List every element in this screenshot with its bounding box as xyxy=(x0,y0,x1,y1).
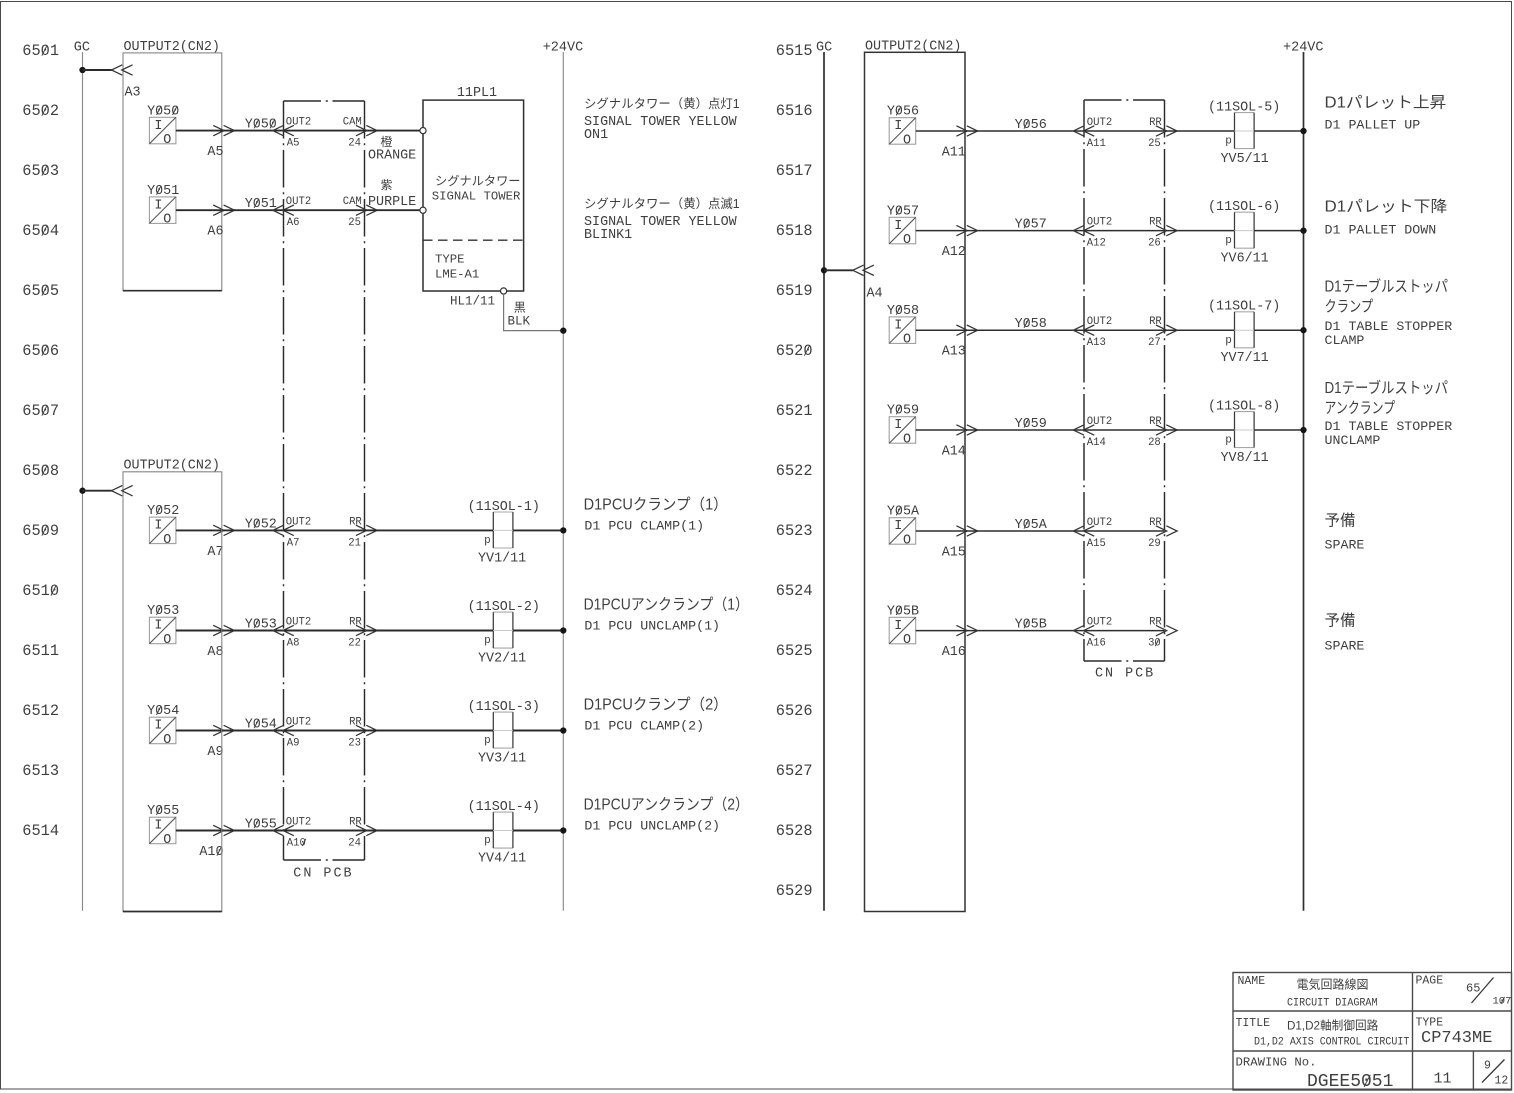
svg-text:A15: A15 xyxy=(1087,538,1106,550)
output module Y052 xyxy=(147,504,179,548)
wire Y055 to connector pin A10 xyxy=(176,825,235,860)
svg-text:CIRCUIT DIAGRAM: CIRCUIT DIAGRAM xyxy=(1287,998,1378,1010)
svg-text:6507: 6507 xyxy=(22,402,59,420)
svg-text:D1テーブルストッパ: D1テーブルストッパ xyxy=(1325,277,1449,296)
svg-text:YV8/11: YV8/11 xyxy=(1221,451,1269,466)
svg-text:O: O xyxy=(163,533,171,548)
svg-text:CN PCB: CN PCB xyxy=(293,867,353,882)
svg-text:I: I xyxy=(154,198,162,213)
svg-text:Y05A: Y05A xyxy=(887,505,920,520)
svg-text:A11: A11 xyxy=(1087,138,1106,150)
svg-text:6521: 6521 xyxy=(776,402,813,420)
connector pins OUT2 A15 / RR 29 xyxy=(1073,517,1177,550)
output module Y05B xyxy=(887,604,919,648)
svg-text:YV1/11: YV1/11 xyxy=(478,551,526,566)
wire Y052 to connector pin A7 xyxy=(176,525,235,560)
wire 24 to signal tower xyxy=(365,130,421,132)
svg-text:D1 TABLE STOPPER: D1 TABLE STOPPER xyxy=(1325,319,1453,334)
svg-text:6504: 6504 xyxy=(22,222,59,240)
label SPARE 1 xyxy=(1325,511,1365,552)
title block PAGE cell 65/107 xyxy=(1416,975,1512,1008)
output module Y05A xyxy=(887,505,920,549)
title block TITLE cell xyxy=(1236,1017,1410,1049)
solenoid valve YV4/11 (11SOL-4) xyxy=(468,800,540,867)
svg-text:6512: 6512 xyxy=(22,702,59,720)
wire Y053 to connector pin A8 xyxy=(176,625,235,660)
svg-text:ON1: ON1 xyxy=(584,128,608,143)
output module Y053 xyxy=(147,604,179,648)
wire Y051 to connector pin A6 xyxy=(176,205,235,240)
svg-text:A11: A11 xyxy=(942,146,966,161)
svg-text:RR: RR xyxy=(1149,617,1162,629)
svg-text:A9: A9 xyxy=(287,738,300,750)
svg-text:6516: 6516 xyxy=(776,102,813,120)
net label Y057 xyxy=(965,218,1084,233)
connector pins OUT2 A10 / RR 24 xyxy=(273,817,377,850)
net +24VC right rail xyxy=(1283,41,1324,911)
connector pins OUT2 A5 / CAM 24 xyxy=(273,117,377,150)
svg-text:O: O xyxy=(903,633,911,648)
wire Y05B to connector pin A16 xyxy=(916,625,978,660)
wire GC to OUTPUT2 A4 with junction xyxy=(821,265,874,275)
svg-text:p: p xyxy=(1225,435,1232,447)
svg-text:6528: 6528 xyxy=(776,822,813,840)
output module Y050 xyxy=(147,104,179,148)
net label Y058 xyxy=(965,317,1084,332)
svg-text:BLINK1: BLINK1 xyxy=(584,228,632,243)
svg-text:6519: 6519 xyxy=(776,282,813,300)
svg-text:紫: 紫 xyxy=(381,178,393,192)
svg-text:6505: 6505 xyxy=(22,282,59,300)
net label Y054 xyxy=(222,718,284,733)
wire Y054 to connector pin A9 xyxy=(176,725,235,760)
svg-text:6513: 6513 xyxy=(22,762,59,780)
connector pins OUT2 A12 / RR 26 xyxy=(1073,217,1177,250)
svg-text:RR: RR xyxy=(1149,316,1162,328)
connector pins OUT2 A7 / RR 21 xyxy=(273,516,377,549)
svg-text:(11SOL-2): (11SOL-2) xyxy=(468,600,540,615)
svg-text:RR: RR xyxy=(349,817,362,829)
signal tower 11PL1 xyxy=(420,86,524,294)
output module Y059 xyxy=(887,404,919,448)
label D1 PALLET DOWN xyxy=(1325,198,1448,238)
svg-text:OUT2: OUT2 xyxy=(1087,217,1112,229)
svg-text:12: 12 xyxy=(1495,1074,1509,1087)
wire Y05A to connector pin A15 xyxy=(916,526,978,561)
wire solenoid YV6/11 to +24VC junction xyxy=(1254,227,1307,233)
net label Y052 xyxy=(222,517,284,532)
svg-text:24: 24 xyxy=(348,138,361,150)
wire 25 to signal tower xyxy=(365,209,421,211)
svg-text:I: I xyxy=(154,519,162,534)
svg-text:A4: A4 xyxy=(867,287,883,302)
solenoid valve YV1/11 (11SOL-1) xyxy=(468,500,540,567)
svg-text:p: p xyxy=(1225,136,1232,148)
svg-text:(11SOL-5): (11SOL-5) xyxy=(1208,100,1280,115)
svg-text:Y05B: Y05B xyxy=(887,604,919,619)
svg-text:Y05B: Y05B xyxy=(1015,618,1047,633)
svg-text:6509: 6509 xyxy=(22,522,59,540)
net label Y050 xyxy=(222,118,284,133)
wire Y057 to connector pin A12 xyxy=(916,225,978,260)
svg-text:(11SOL-6): (11SOL-6) xyxy=(1208,200,1280,215)
svg-text:Y052: Y052 xyxy=(147,504,179,519)
solenoid valve YV5/11 (11SOL-5) xyxy=(1208,100,1280,167)
net +24VC left rail xyxy=(543,41,584,911)
output module Y057 xyxy=(887,204,919,248)
svg-text:6514: 6514 xyxy=(22,822,59,840)
svg-text:6503: 6503 xyxy=(22,162,59,180)
svg-text:23: 23 xyxy=(348,738,361,750)
svg-text:SPARE: SPARE xyxy=(1325,639,1365,654)
svg-text:D1パレット下降: D1パレット下降 xyxy=(1325,198,1448,216)
svg-text:22: 22 xyxy=(348,638,361,650)
svg-text:6522: 6522 xyxy=(776,462,813,480)
svg-text:RR: RR xyxy=(349,717,362,729)
svg-text:9: 9 xyxy=(1484,1059,1491,1072)
wire solenoid YV3/11 to +24VC junction xyxy=(513,727,567,733)
svg-text:RR: RR xyxy=(1149,117,1162,129)
svg-text:DGEE5051: DGEE5051 xyxy=(1307,1072,1393,1092)
svg-text:27: 27 xyxy=(1148,337,1161,349)
connector CN PCB left dash-dot box xyxy=(284,101,365,882)
svg-text:6501: 6501 xyxy=(22,42,59,60)
svg-text:A16: A16 xyxy=(942,645,966,660)
connector pins OUT2 A14 / RR 28 xyxy=(1073,416,1177,449)
svg-text:(11SOL-1): (11SOL-1) xyxy=(468,500,540,515)
svg-text:UNCLAMP: UNCLAMP xyxy=(1325,433,1381,448)
svg-text:RR: RR xyxy=(349,617,362,629)
wire solenoid YV7/11 to +24VC junction xyxy=(1254,327,1307,333)
svg-text:OUT2: OUT2 xyxy=(286,717,311,729)
wire solenoid YV4/11 to +24VC junction xyxy=(513,827,567,833)
connector OUTPUT2(CN2) A4 right box xyxy=(865,40,966,912)
wire solenoid YV1/11 to +24VC junction xyxy=(513,527,567,533)
wire 25 to solenoid xyxy=(1165,130,1235,132)
net GC right rail xyxy=(816,41,832,911)
svg-text:A12: A12 xyxy=(942,245,966,260)
connector pins OUT2 A16 / RR 30 xyxy=(1073,617,1177,650)
output module Y051 xyxy=(147,184,179,228)
svg-text:(11SOL-4): (11SOL-4) xyxy=(468,800,540,815)
svg-text:D1 PCU CLAMP(2): D1 PCU CLAMP(2) xyxy=(584,719,704,734)
svg-text:OUT2: OUT2 xyxy=(1087,117,1112,129)
svg-text:p: p xyxy=(484,635,491,647)
svg-text:OUT2: OUT2 xyxy=(1087,517,1112,529)
wire 22 to solenoid xyxy=(365,630,494,632)
svg-text:A8: A8 xyxy=(207,645,223,660)
svg-text:RR: RR xyxy=(1149,517,1162,529)
svg-text:6529: 6529 xyxy=(776,882,813,900)
output module Y054 xyxy=(147,704,179,748)
svg-text:YV6/11: YV6/11 xyxy=(1221,252,1269,267)
svg-text:I: I xyxy=(894,119,902,134)
svg-text:Y058: Y058 xyxy=(887,304,919,319)
svg-text:D1PCUアンクランプ（1）: D1PCUアンクランプ（1） xyxy=(584,596,749,614)
svg-text:I: I xyxy=(154,819,162,834)
svg-text:予備: 予備 xyxy=(1325,511,1356,529)
output module Y056 xyxy=(887,105,919,149)
svg-text:D1 PALLET DOWN: D1 PALLET DOWN xyxy=(1325,223,1437,238)
wire Y058 to connector pin A13 xyxy=(916,325,978,360)
svg-text:シグナルタワー（黄）点灯1: シグナルタワー（黄）点灯1 xyxy=(584,97,740,111)
title block sheet number 11 xyxy=(1434,1070,1452,1087)
svg-text:25: 25 xyxy=(1148,138,1161,150)
wire Y050 to connector pin A5 xyxy=(176,125,235,160)
svg-text:D1PCUクランプ（1）: D1PCUクランプ（1） xyxy=(584,495,728,513)
rung numbers 6501-6514 left column xyxy=(22,42,59,840)
svg-text:6517: 6517 xyxy=(776,162,813,180)
output module Y058 xyxy=(887,304,919,348)
title block revision 9/12 xyxy=(1482,1059,1508,1087)
solenoid valve YV2/11 (11SOL-2) xyxy=(468,600,540,667)
svg-text:OUT2: OUT2 xyxy=(286,817,311,829)
svg-text:A16: A16 xyxy=(1087,638,1106,650)
svg-text:6515: 6515 xyxy=(776,42,813,60)
svg-text:I: I xyxy=(154,619,162,634)
svg-text:D1,D2 AXIS CONTROL CIRCUIT: D1,D2 AXIS CONTROL CIRCUIT xyxy=(1254,1036,1410,1048)
label SPARE 2 xyxy=(1325,611,1365,653)
wire solenoid YV5/11 to +24VC junction xyxy=(1254,128,1307,134)
svg-text:D1,D2軸制御回路: D1,D2軸制御回路 xyxy=(1287,1018,1378,1033)
svg-text:p: p xyxy=(484,835,491,847)
wire Y059 to connector pin A14 xyxy=(916,425,978,460)
svg-text:YV7/11: YV7/11 xyxy=(1221,351,1269,366)
wire Y056 to connector pin A11 xyxy=(916,126,978,161)
svg-text:D1PCUアンクランプ（2）: D1PCUアンクランプ（2） xyxy=(584,796,749,814)
wire 27 to solenoid xyxy=(1165,329,1235,331)
svg-text:Y051: Y051 xyxy=(147,184,179,199)
svg-text:O: O xyxy=(903,233,911,248)
svg-text:YV2/11: YV2/11 xyxy=(478,652,526,667)
wire color label purple xyxy=(368,178,416,210)
svg-text:I: I xyxy=(894,219,902,234)
svg-text:OUTPUT2(CN2): OUTPUT2(CN2) xyxy=(124,458,220,473)
svg-text:A5: A5 xyxy=(287,138,300,150)
svg-text:A12: A12 xyxy=(1087,238,1106,250)
svg-text:D1PCUクランプ（2）: D1PCUクランプ（2） xyxy=(584,696,728,714)
svg-text:(11SOL-8): (11SOL-8) xyxy=(1208,399,1280,414)
svg-text:HL1/11: HL1/11 xyxy=(450,295,495,309)
wire 28 to solenoid xyxy=(1165,429,1235,431)
svg-text:Y056: Y056 xyxy=(887,105,919,120)
svg-text:PURPLE: PURPLE xyxy=(368,195,416,210)
svg-text:21: 21 xyxy=(348,537,361,549)
label D1 PCU UNCLAMP(1) xyxy=(584,596,749,634)
label signal tower yellow on1 xyxy=(584,97,740,143)
svg-text:CN PCB: CN PCB xyxy=(1095,667,1155,682)
svg-text:TYPE: TYPE xyxy=(1416,1017,1444,1030)
svg-text:OUT2: OUT2 xyxy=(1087,416,1112,428)
svg-text:OUT2: OUT2 xyxy=(286,617,311,629)
label D1 PCU CLAMP(1) xyxy=(584,495,728,533)
svg-text:29: 29 xyxy=(1148,538,1161,550)
svg-text:O: O xyxy=(163,733,171,748)
svg-text:Y058: Y058 xyxy=(1015,317,1047,332)
svg-text:O: O xyxy=(163,833,171,848)
svg-text:RR: RR xyxy=(349,516,362,528)
svg-text:O: O xyxy=(163,633,171,648)
net label Y05A xyxy=(965,518,1084,533)
svg-text:6525: 6525 xyxy=(776,642,813,660)
wire 21 to solenoid xyxy=(365,529,494,531)
net label Y051 xyxy=(222,197,284,212)
svg-text:p: p xyxy=(484,535,491,547)
label D1 PCU CLAMP(2) xyxy=(584,696,728,734)
svg-text:6527: 6527 xyxy=(776,762,813,780)
svg-text:6508: 6508 xyxy=(22,462,59,480)
svg-text:OUT2: OUT2 xyxy=(1087,617,1112,629)
wire solenoid YV2/11 to +24VC junction xyxy=(513,627,567,633)
svg-text:D1 PCU CLAMP(1): D1 PCU CLAMP(1) xyxy=(584,518,704,533)
svg-text:O: O xyxy=(903,533,911,548)
svg-text:6523: 6523 xyxy=(776,522,813,540)
net label Y056 xyxy=(965,118,1084,133)
svg-text:Y056: Y056 xyxy=(1015,118,1047,133)
net GC left rail xyxy=(74,41,90,911)
svg-text:I: I xyxy=(154,719,162,734)
svg-text:24: 24 xyxy=(348,838,361,850)
title block TYPE cell CP743ME xyxy=(1416,1017,1493,1049)
svg-text:I: I xyxy=(894,519,902,534)
svg-text:Y059: Y059 xyxy=(1015,417,1047,432)
svg-text:A5: A5 xyxy=(207,145,223,160)
svg-text:6511: 6511 xyxy=(22,642,59,660)
svg-text:シグナルタワー: シグナルタワー xyxy=(435,174,521,188)
svg-text:O: O xyxy=(903,133,911,148)
connector OUTPUT2(CN2) A3 upper left box xyxy=(123,40,222,291)
connector pins OUT2 A8 / RR 22 xyxy=(273,617,377,650)
connector pins OUT2 A13 / RR 27 xyxy=(1073,316,1177,349)
svg-text:(11SOL-7): (11SOL-7) xyxy=(1208,300,1280,315)
svg-text:SIGNAL TOWER: SIGNAL TOWER xyxy=(432,190,521,204)
svg-text:電気回路線図: 電気回路線図 xyxy=(1297,977,1369,992)
svg-text:PAGE: PAGE xyxy=(1416,975,1444,988)
wire 24 to solenoid xyxy=(365,830,494,832)
svg-text:Y053: Y053 xyxy=(147,604,179,619)
net label Y059 xyxy=(965,417,1084,432)
svg-text:6518: 6518 xyxy=(776,222,813,240)
svg-text:A13: A13 xyxy=(942,345,966,360)
svg-text:I: I xyxy=(894,418,902,433)
connector pins OUT2 A6 / CAM 25 xyxy=(273,196,377,229)
svg-text:A14: A14 xyxy=(1087,437,1106,449)
svg-text:26: 26 xyxy=(1148,238,1161,250)
svg-text:OUT2: OUT2 xyxy=(286,196,311,208)
svg-text:D1パレット上昇: D1パレット上昇 xyxy=(1325,94,1447,112)
rung numbers 6515-6529 right column xyxy=(776,42,813,900)
svg-text:予備: 予備 xyxy=(1325,611,1356,629)
svg-text:橙: 橙 xyxy=(381,134,393,149)
svg-text:11: 11 xyxy=(1434,1070,1452,1087)
svg-text:RR: RR xyxy=(1149,217,1162,229)
net label Y05B xyxy=(965,618,1084,633)
connector CN PCB right dash-dot box xyxy=(1084,100,1165,682)
svg-text:A7: A7 xyxy=(287,537,300,549)
label D1 TABLE STOPPER UNCLAMP xyxy=(1325,378,1453,448)
svg-text:シグナルタワー（黄）点滅1: シグナルタワー（黄）点滅1 xyxy=(584,197,740,211)
svg-text:A14: A14 xyxy=(942,445,966,460)
output module Y055 xyxy=(147,804,179,848)
svg-text:p: p xyxy=(1225,335,1232,347)
connector OUTPUT2(CN2) lower left box xyxy=(123,458,222,911)
svg-text:クランプ: クランプ xyxy=(1325,298,1374,316)
svg-text:OUT2: OUT2 xyxy=(286,117,311,129)
svg-text:DRAWING No.: DRAWING No. xyxy=(1236,1057,1317,1070)
svg-text:Y059: Y059 xyxy=(887,404,919,419)
svg-text:A7: A7 xyxy=(207,545,223,560)
wire 26 to solenoid xyxy=(1165,230,1235,232)
svg-text:O: O xyxy=(163,213,171,228)
svg-text:D1 PCU UNCLAMP(1): D1 PCU UNCLAMP(1) xyxy=(584,619,720,634)
label D1 PCU UNCLAMP(2) xyxy=(584,796,749,834)
label D1 TABLE STOPPER CLAMP xyxy=(1325,277,1453,349)
solenoid valve YV8/11 (11SOL-8) xyxy=(1208,399,1280,466)
svg-text:YV3/11: YV3/11 xyxy=(478,752,526,767)
svg-text:LME-A1: LME-A1 xyxy=(435,268,479,282)
svg-text:黒: 黒 xyxy=(514,301,526,315)
svg-text:A13: A13 xyxy=(1087,337,1106,349)
svg-text:A8: A8 xyxy=(287,638,300,650)
label signal tower yellow blink1 xyxy=(584,197,740,243)
svg-text:A9: A9 xyxy=(207,745,223,760)
svg-text:YV4/11: YV4/11 xyxy=(478,852,526,867)
pin label HL1/11 xyxy=(450,295,495,309)
solenoid valve YV7/11 (11SOL-7) xyxy=(1208,300,1280,367)
net label Y053 xyxy=(222,618,284,633)
svg-text:O: O xyxy=(163,133,171,148)
svg-text:YV5/11: YV5/11 xyxy=(1221,152,1269,167)
svg-text:アンクランプ: アンクランプ xyxy=(1325,399,1396,417)
svg-text:ORANGE: ORANGE xyxy=(368,149,416,164)
svg-text:I: I xyxy=(154,119,162,134)
svg-text:OUT2: OUT2 xyxy=(286,516,311,528)
wire solenoid YV8/11 to +24VC junction xyxy=(1254,427,1307,433)
svg-text:25: 25 xyxy=(348,217,361,229)
title block table xyxy=(1233,973,1512,1091)
wire GC to lower OUTPUT2 with junction xyxy=(79,486,132,496)
title block DRAWING No. cell DGEE5051 xyxy=(1236,1057,1394,1093)
svg-text:6506: 6506 xyxy=(22,342,59,360)
svg-text:(11SOL-3): (11SOL-3) xyxy=(468,700,540,715)
svg-text:p: p xyxy=(1225,235,1232,247)
svg-text:Y05A: Y05A xyxy=(1015,518,1048,533)
svg-text:D1テーブルストッパ: D1テーブルストッパ xyxy=(1325,378,1449,397)
svg-text:I: I xyxy=(894,318,902,333)
svg-text:A15: A15 xyxy=(942,546,966,561)
svg-text:Y055: Y055 xyxy=(147,804,179,819)
svg-text:28: 28 xyxy=(1148,437,1161,449)
title block NAME cell xyxy=(1238,975,1378,1010)
connector pins OUT2 A9 / RR 23 xyxy=(273,717,377,750)
svg-text:SPARE: SPARE xyxy=(1325,538,1365,553)
svg-text:65: 65 xyxy=(1466,982,1480,996)
svg-text:BLK: BLK xyxy=(508,315,531,329)
wire BLK tower to +24VC xyxy=(504,294,567,334)
connector pins OUT2 A11 / RR 25 xyxy=(1073,117,1177,150)
svg-text:GC: GC xyxy=(74,41,90,56)
svg-text:OUT2: OUT2 xyxy=(1087,316,1112,328)
svg-text:I: I xyxy=(894,619,902,634)
svg-text:Y054: Y054 xyxy=(147,704,179,719)
svg-text:TITLE: TITLE xyxy=(1236,1017,1271,1030)
solenoid valve YV3/11 (11SOL-3) xyxy=(468,700,540,767)
svg-text:Y057: Y057 xyxy=(1015,218,1047,233)
svg-text:A10: A10 xyxy=(199,845,223,860)
svg-text:D1 TABLE STOPPER: D1 TABLE STOPPER xyxy=(1325,419,1453,434)
svg-text:CP743ME: CP743ME xyxy=(1421,1029,1492,1048)
svg-text:D1 PCU UNCLAMP(2): D1 PCU UNCLAMP(2) xyxy=(584,819,720,834)
